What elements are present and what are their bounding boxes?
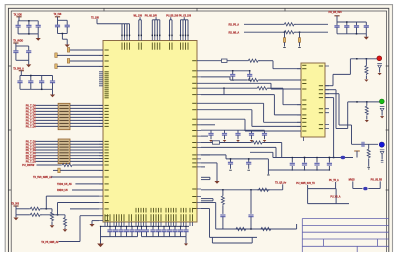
wire rail [20, 75, 53, 77]
bus wires to RN2 [36, 141, 104, 161]
resistor network RN1 [58, 103, 70, 129]
svg-text:PU_B5_1V8: PU_B5_1V8 [166, 16, 179, 18]
capacitor C37 [131, 226, 133, 230]
cluster1 wires [121, 24, 123, 37]
resistor R28 [256, 87, 268, 90]
capacitor C5 [66, 20, 68, 25]
capacitor C38 [137, 226, 139, 230]
svg-text:MV25: MV25 [349, 179, 356, 182]
wire feed green [325, 89, 336, 91]
IC U1 top pin names [122, 43, 188, 50]
resistor R4 [55, 64, 57, 69]
wire jog [61, 34, 63, 40]
ground [97, 244, 104, 248]
IC U1 right pin names [192, 61, 196, 209]
resistor R18 [365, 59, 367, 65]
IC U1 right pins [197, 61, 201, 209]
ground [184, 244, 188, 246]
wire rowH [201, 109, 252, 111]
resistor R20 [368, 144, 370, 148]
capacitor C36 [126, 226, 128, 230]
wire C1 rail [18, 20, 38, 22]
resistor R11 [283, 23, 295, 26]
wire [18, 17, 20, 21]
svg-text:TX_P5_SW5_A#: TX_P5_SW5_A# [41, 241, 59, 244]
wire [73, 164, 103, 166]
IC U1 left pin names [105, 50, 109, 221]
wire [268, 169, 329, 171]
power tee [354, 150, 360, 152]
wire rowB [201, 70, 250, 72]
svg-text:TX_1V8: TX_1V8 [54, 14, 63, 16]
capacitor C44 [169, 226, 171, 230]
wire [220, 142, 252, 144]
resistor R1 [67, 48, 69, 53]
wire [282, 184, 284, 190]
wire rail [58, 19, 68, 21]
svg-text:RXD0_U5: RXD0_U5 [57, 189, 68, 192]
wire [72, 189, 103, 191]
wire rowF [223, 88, 225, 94]
wire [337, 33, 366, 35]
wire [45, 196, 47, 209]
wire [15, 43, 17, 46]
capacitor C47 [185, 226, 187, 230]
wire rowC [201, 76, 230, 78]
wire rowJ [201, 124, 215, 126]
wire [18, 33, 38, 35]
wire [59, 241, 80, 243]
wire [101, 236, 138, 238]
wire [16, 59, 29, 61]
capacitor C6 [15, 46, 17, 51]
resistor R10 [64, 215, 66, 217]
resistor R24 [257, 188, 269, 191]
wire [57, 54, 103, 56]
svg-text:PU_T_D0: PU_T_D0 [26, 126, 37, 129]
cluster wires [151, 20, 153, 37]
wire [379, 68, 381, 72]
capacitor C19 [224, 130, 226, 133]
resistor R25 [235, 227, 247, 230]
IC U1 bottom pins [105, 222, 193, 226]
wire TP row [201, 189, 283, 191]
capacitor C30 [248, 159, 250, 162]
IC U2 pin names [302, 65, 323, 131]
svg-text:TX_1V8: TX_1V8 [91, 17, 100, 19]
wire bracket2 [201, 198, 213, 200]
capacitor C1 [17, 21, 19, 26]
svg-text:WL_1V8: WL_1V8 [134, 16, 143, 18]
IC U2 right pins [325, 66, 329, 129]
wire [336, 16, 338, 22]
wire [142, 236, 187, 238]
wire [58, 33, 68, 35]
wire [75, 183, 103, 185]
resistor R14 [299, 32, 301, 37]
wire to ground [201, 162, 217, 164]
capacitor C31 [220, 215, 225, 217]
wire tee [155, 17, 157, 20]
capacitor C20 [237, 130, 239, 133]
wire rail [16, 45, 29, 47]
svg-text:TX_Q5_Av: TX_Q5_Av [275, 182, 287, 185]
wire tee [170, 17, 172, 20]
resistor R16 [247, 78, 259, 81]
wire rowD [201, 82, 271, 84]
capacitor C27 [328, 158, 330, 163]
wire [295, 31, 328, 33]
wire long1 [201, 142, 213, 144]
wire [335, 182, 337, 189]
resistor R26 [222, 190, 224, 195]
ground [214, 181, 219, 184]
wire caps row [201, 154, 226, 156]
wire rowA [201, 60, 222, 62]
IC U1 bottom pin names [105, 208, 193, 221]
wire bracket [201, 176, 210, 178]
capacitor C40 [146, 226, 148, 230]
wire feed blue [325, 93, 339, 95]
resistor R12 [283, 31, 295, 34]
capacitor C13 [346, 22, 348, 26]
component Y1 [222, 59, 228, 62]
capacitor C16 [232, 71, 234, 75]
capacitor C22 [264, 130, 266, 133]
wire tee [183, 17, 185, 20]
IC U2 bottom pin [303, 137, 305, 141]
wire [201, 166, 205, 168]
wire [57, 17, 59, 21]
wire rail [273, 157, 353, 159]
wire [53, 169, 58, 171]
ground [65, 45, 70, 48]
wire [51, 176, 103, 178]
ground [364, 80, 368, 82]
IC U1 top pins [122, 37, 188, 41]
capacitor C8 [19, 76, 21, 81]
capacitor C46 [180, 226, 182, 230]
wire rowI [201, 118, 245, 120]
capacitor C14 [356, 22, 358, 26]
ground [63, 229, 68, 232]
wire [267, 159, 269, 174]
capacitor C29 [230, 159, 232, 162]
resistor R3 [67, 59, 69, 64]
LED D2 green [379, 99, 384, 104]
IC U1 main MCU [103, 41, 197, 223]
resistor R15 [247, 59, 259, 62]
ground [365, 120, 369, 122]
ferrite bead L1 [341, 156, 346, 159]
wire [227, 60, 247, 62]
capacitor C24 [291, 158, 293, 163]
svg-text:PU_U5_R5: PU_U5_R5 [371, 179, 383, 182]
component box [213, 141, 220, 144]
wire [268, 87, 283, 89]
svg-text:TX_3V3: TX_3V3 [11, 203, 20, 205]
wire [259, 60, 273, 62]
wire [15, 206, 17, 209]
ground [365, 34, 367, 37]
wire [295, 23, 328, 25]
ground [37, 34, 39, 38]
wire row1 [16, 208, 29, 210]
wire [263, 142, 282, 144]
cluster wires [138, 20, 140, 37]
title block [302, 219, 389, 253]
wire [70, 208, 99, 210]
wire [347, 102, 349, 129]
resistor R9 [51, 209, 53, 211]
IC U2 transceiver [301, 63, 325, 137]
wire feed red [333, 73, 350, 75]
wire [368, 188, 380, 190]
wire long2 [201, 146, 276, 148]
cluster wires [180, 20, 182, 37]
wire [352, 181, 354, 188]
capacitor C42 [158, 226, 160, 230]
capacitor C34 [115, 226, 117, 230]
resistor R8 [29, 213, 41, 216]
wire bottom1 [201, 202, 216, 204]
capacitor C2 [28, 21, 30, 26]
wire tee [139, 17, 141, 20]
resistor R6 [58, 168, 60, 173]
capacitor C25 [304, 158, 306, 163]
svg-text:TX_5V0_SW5_A#: TX_5V0_SW5_A# [33, 176, 53, 179]
wire [259, 79, 301, 81]
wire [20, 71, 22, 76]
resistor network RN2 [58, 139, 70, 164]
wire [201, 154, 210, 156]
wire row2 [16, 214, 29, 216]
ground [50, 225, 55, 228]
wire [244, 23, 283, 25]
capacitor C15 [365, 22, 367, 26]
capacitor C12 [336, 22, 338, 26]
resistor R19 [366, 102, 368, 105]
wire rowK [201, 135, 208, 137]
wire bracket low [211, 237, 213, 243]
svg-text:PU_A5_1V8: PU_A5_1V8 [145, 15, 158, 18]
wire [352, 143, 379, 145]
ground [380, 116, 384, 118]
wire [41, 214, 65, 216]
LED D3 blue [379, 142, 384, 147]
wire [20, 88, 53, 90]
wire rail bottom [101, 225, 190, 227]
capacitor C28 [362, 142, 364, 147]
cluster wires [169, 20, 171, 37]
diode D4 [363, 187, 367, 190]
svg-text:PU_V5_A: PU_V5_A [330, 196, 340, 199]
frame zone ticks [8, 8, 388, 190]
capacitor C26 [316, 158, 318, 163]
svg-text:PU_T5_A: PU_T5_A [329, 179, 339, 182]
resistor R27 [260, 227, 272, 230]
capacitor C43 [163, 226, 165, 230]
wire [185, 237, 187, 244]
ground [28, 60, 30, 64]
ground IC corner [92, 220, 99, 222]
wire rowG [201, 102, 264, 104]
U loop wire [308, 188, 337, 190]
wire [381, 155, 383, 160]
wire bottom2 [201, 208, 210, 210]
wire [41, 208, 52, 210]
capacitor C41 [152, 226, 154, 230]
svg-text:TX_AVDD: TX_AVDD [13, 40, 23, 43]
LED D1 red [377, 56, 382, 61]
wire rowE [201, 87, 256, 89]
wire cap rail [201, 129, 265, 131]
wire rowL [250, 151, 273, 153]
svg-text:TX_5V0_A: TX_5V0_A [13, 67, 24, 70]
capacitor C35 [120, 226, 122, 230]
svg-text:RX_N5_A: RX_N5_A [229, 31, 240, 34]
svg-text:PU_RST5#: PU_RST5# [22, 164, 35, 167]
svg-text:PU_D5_5V0: PU_D5_5V0 [329, 11, 343, 14]
capacitor C18 [210, 130, 212, 133]
svg-text:TXD0_U5_A5: TXD0_U5_A5 [57, 183, 72, 186]
wire [381, 111, 383, 115]
ground [378, 73, 382, 75]
wire [225, 155, 227, 159]
capacitor C32 [250, 190, 252, 214]
wire [70, 49, 103, 51]
bus wires to RN1 [36, 105, 104, 126]
capacitor C10 [41, 76, 43, 81]
wire [244, 31, 283, 33]
wire [100, 226, 102, 243]
wire [57, 65, 103, 67]
resistor R17 [251, 141, 263, 144]
wire [96, 19, 98, 24]
resistor R5 [61, 163, 73, 166]
wire [349, 59, 351, 75]
wire [37, 164, 62, 166]
capacitor C4 [57, 20, 59, 25]
capacitor C3 [37, 21, 39, 26]
resistor R2 [55, 53, 57, 58]
capacitor C11 [52, 76, 54, 81]
capacitor C7 [28, 46, 30, 51]
capacitor C9 [30, 76, 32, 81]
ground [52, 89, 54, 94]
resistor R13 [284, 32, 286, 37]
IC U1 left pins [99, 50, 103, 221]
capacitor C33 [109, 226, 111, 230]
svg-text:PU_SW5_3V3_TX: PU_SW5_3V3_TX [296, 182, 315, 185]
wire [307, 185, 309, 189]
svg-text:PU_C5_1V8: PU_C5_1V8 [179, 16, 192, 18]
capacitor C39 [141, 226, 143, 230]
wire [57, 203, 59, 215]
svg-text:RX_P5_A: RX_P5_A [229, 23, 240, 26]
IC U2 left pins [297, 69, 301, 131]
capacitor C21 [251, 130, 253, 133]
ground [15, 215, 17, 217]
capacitor C45 [174, 226, 176, 230]
wire 4th [325, 97, 334, 99]
wire [70, 60, 103, 62]
resistor R7 [29, 207, 41, 210]
capacitor C17 [249, 71, 251, 75]
